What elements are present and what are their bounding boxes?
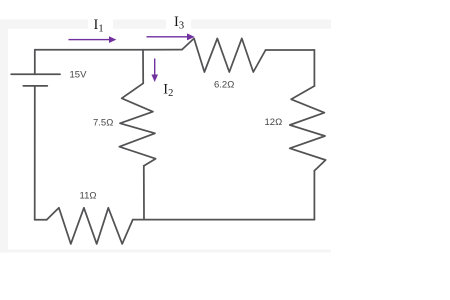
resistor 11ohm bbox=[47, 208, 133, 244]
wire right lower bbox=[313, 171, 315, 220]
wire from 7.5ohm to node B bbox=[143, 166, 145, 220]
wire top from battery to node A bbox=[35, 49, 143, 51]
svg-text:6.2Ω: 6.2Ω bbox=[214, 80, 234, 91]
wire right upper bbox=[313, 50, 315, 86]
wire top right bbox=[266, 49, 315, 51]
svg-text:11Ω: 11Ω bbox=[80, 190, 97, 201]
svg-text:7.5Ω: 7.5Ω bbox=[93, 118, 113, 129]
svg-text:15V: 15V bbox=[70, 69, 88, 80]
wire top from node A to 6.2ohm resistor bbox=[143, 49, 182, 51]
wire left lower bbox=[34, 86, 36, 220]
current arrow I3 bbox=[147, 33, 195, 40]
wire left upper from battery to top bbox=[34, 50, 36, 75]
backdrop bbox=[0, 20, 331, 253]
wire bottom from right corner to node B bbox=[144, 219, 314, 221]
current arrow I2 bbox=[151, 59, 158, 83]
node A branch wire bbox=[142, 50, 144, 84]
resistor 12ohm bbox=[290, 86, 326, 171]
resistor 6.2ohm bbox=[182, 38, 266, 72]
resistor 7.5ohm bbox=[119, 83, 155, 166]
wire bottom left stub bbox=[35, 219, 47, 221]
battery B1 15V bbox=[11, 73, 60, 75]
current arrow I1 bbox=[69, 36, 117, 43]
svg-text:12Ω: 12Ω bbox=[265, 117, 283, 128]
wire bottom from node B to 11ohm resistor bbox=[133, 219, 144, 221]
